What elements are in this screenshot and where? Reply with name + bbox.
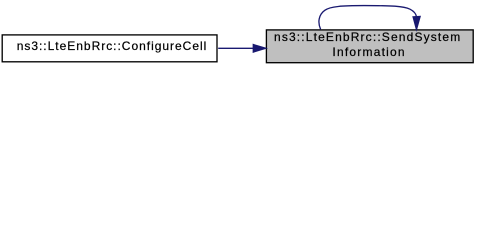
edge ConfigureCell -> SendSystemInformation: [218, 45, 266, 53]
svg-text:ns3::LteEnbRrc::ConfigureCell: ns3::LteEnbRrc::ConfigureCell: [17, 39, 207, 53]
node ns3::LteEnbRrc::ConfigureCell: [2, 35, 217, 62]
svg-text:Information: Information: [332, 45, 404, 59]
svg-text:ns3::LteEnbRrc::SendSystem: ns3::LteEnbRrc::SendSystem: [274, 30, 460, 44]
node ns3::LteEnbRrc::SendSystemInformation (current, gray): [266, 30, 473, 63]
self-loop edge SendSystemInformation -> SendSystemInformation: [319, 6, 420, 30]
